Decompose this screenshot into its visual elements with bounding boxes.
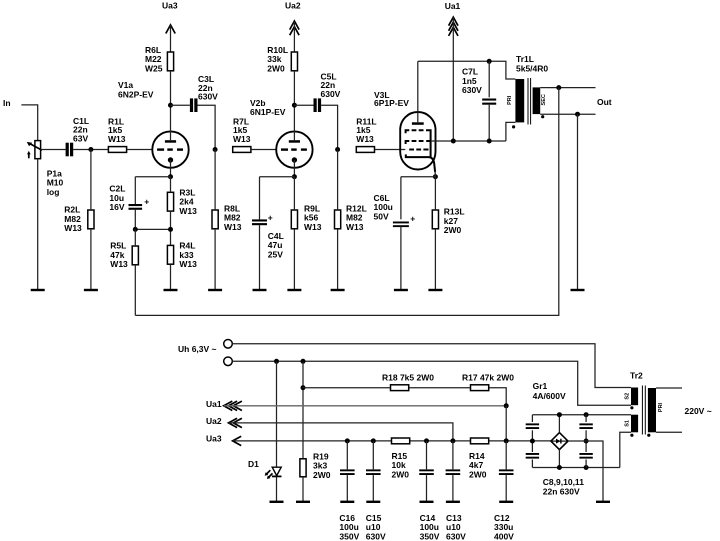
resistor R8L <box>212 204 242 232</box>
node plate V1a <box>168 103 173 108</box>
wire secondary bottom to ground <box>577 114 579 290</box>
wire V3L plate to Tr1L primary <box>418 61 516 79</box>
node junction C15 <box>371 438 376 443</box>
node junction DC+ left <box>530 439 535 444</box>
ground <box>420 501 434 503</box>
svg-text:PRI: PRI <box>658 402 664 412</box>
svg-text:W13: W13 <box>356 134 374 144</box>
node junction D1 tap <box>274 359 279 364</box>
svg-text:SEC: SEC <box>541 94 547 105</box>
resistor R15 <box>392 438 410 479</box>
wire C3L to V2b grid node <box>198 105 216 149</box>
wire plate node to C5L <box>294 104 313 106</box>
svg-text:2W0: 2W0 <box>267 63 285 73</box>
wire P1a wiper to C1L <box>41 149 66 151</box>
node In <box>3 98 11 108</box>
transformer Tr2 core <box>642 386 645 435</box>
node junction secondary top <box>556 85 561 90</box>
node cathode V1a <box>168 174 173 179</box>
svg-text:W13: W13 <box>304 222 322 232</box>
svg-text:Out: Out <box>597 97 612 107</box>
svg-text:400V: 400V <box>494 532 514 541</box>
node Ua1 (supply arrow) <box>445 1 461 141</box>
node junction C7L top <box>487 59 492 64</box>
ground <box>31 289 45 291</box>
node Uh heater terminals <box>178 340 232 366</box>
wire Tr2 primary leads <box>656 388 682 432</box>
svg-text:6N1P-EV: 6N1P-EV <box>250 107 286 117</box>
wire R1L to V1a grid <box>127 149 152 151</box>
node junction snubber bottom right <box>584 465 589 470</box>
ground <box>164 289 178 291</box>
svg-text:Ua2: Ua2 <box>285 1 301 11</box>
svg-text:350V: 350V <box>339 532 359 541</box>
capacitor C3L <box>190 74 218 112</box>
node Ua2 (arrow) <box>206 416 242 428</box>
ground <box>571 289 585 291</box>
svg-text:6P1P-EV: 6P1P-EV <box>374 98 409 108</box>
svg-text:W13: W13 <box>179 206 197 216</box>
wire R3L leads <box>170 177 172 246</box>
svg-text:W13: W13 <box>179 259 197 269</box>
wire C1L to R1L <box>73 149 108 151</box>
node junction bridge bottom <box>557 465 562 470</box>
transformer Tr2 winding S1 <box>624 415 638 437</box>
wire P1a to ground <box>37 159 39 290</box>
resistor R18 <box>382 373 434 391</box>
svg-text:W13: W13 <box>110 259 128 269</box>
capacitor C6L <box>374 193 416 227</box>
wire R11L to V3L grid <box>375 149 406 151</box>
node cathode V2b <box>292 174 297 179</box>
svg-text:2W0: 2W0 <box>469 469 487 479</box>
svg-text:S1: S1 <box>624 420 630 427</box>
ground <box>340 501 354 503</box>
node Ua3 (supply arrow) <box>162 1 178 53</box>
wire bridge AC top <box>532 415 631 433</box>
svg-text:16V: 16V <box>109 202 124 212</box>
ground <box>208 289 222 291</box>
svg-text:2W0: 2W0 <box>313 470 331 480</box>
wire R9L leads <box>293 177 295 290</box>
wire C6L to ground <box>400 226 402 290</box>
node junction Ua1/R17 <box>504 403 509 408</box>
resistor R2L <box>64 205 94 233</box>
ground <box>428 289 442 291</box>
transformer Tr1L primary <box>507 54 548 128</box>
svg-text:W13: W13 <box>224 222 242 232</box>
node junction C2L/R5L <box>133 227 138 232</box>
node cathode V3L <box>433 174 438 179</box>
resistor R5L <box>110 241 138 269</box>
svg-text:In: In <box>3 98 11 108</box>
wire R6L to plate node <box>170 71 172 105</box>
capacitor C16 <box>339 441 359 541</box>
resistor R17 <box>462 373 514 391</box>
transformer Tr2 primary <box>630 371 664 437</box>
node junction C3L/R8L/R7L <box>213 147 218 152</box>
wire R12L leads <box>337 150 339 291</box>
wire R5L leads <box>134 229 136 315</box>
wire bridge DC-minus to ground <box>568 441 603 502</box>
node junction Ua1 stem <box>451 139 456 144</box>
node Ua3 (arrow) <box>206 433 241 445</box>
capacitor C2L <box>109 184 149 212</box>
resistor R10L <box>267 45 297 73</box>
wire C5L to V3L grid node <box>321 105 338 149</box>
ground <box>331 289 345 291</box>
resistor R6L <box>145 45 174 73</box>
svg-text:22n 630V: 22n 630V <box>543 487 580 497</box>
resistor R9L <box>291 204 321 232</box>
wire Ua3 filter rail <box>233 440 551 442</box>
svg-text:25V: 25V <box>268 249 283 259</box>
wire Ua1 line <box>224 405 506 407</box>
resistor R7L <box>233 117 251 153</box>
svg-text:Ua3: Ua3 <box>162 1 178 11</box>
node junction C5L/R12L/R11L <box>335 147 340 152</box>
svg-text:5k5/4R0: 5k5/4R0 <box>516 63 548 73</box>
resistor R19 <box>300 361 331 502</box>
wire Tr1L secondary top to Out <box>540 87 595 89</box>
wire plate node to C3L <box>171 104 190 106</box>
wire R8L leads <box>214 150 216 291</box>
svg-text:D1: D1 <box>248 459 259 469</box>
capacitor C13 <box>446 441 467 541</box>
transformer Tr2 winding S2 <box>624 388 638 410</box>
resistor R3L <box>167 187 197 215</box>
wire cathode V1a to C2L <box>135 177 170 204</box>
svg-text:4A/600V: 4A/600V <box>533 391 566 401</box>
wire R4L to ground <box>170 264 172 290</box>
resistor R4L <box>167 241 197 269</box>
svg-text:+: + <box>268 213 273 223</box>
node Ua1 (arrow) <box>206 399 242 411</box>
transformer Tr1L core <box>528 78 531 125</box>
resistor R14 <box>469 438 489 479</box>
svg-text:630V: 630V <box>462 85 482 95</box>
ground <box>287 289 301 291</box>
capacitor C12 <box>494 441 514 541</box>
svg-text:630V: 630V <box>198 92 218 102</box>
svg-text:Ua3: Ua3 <box>206 433 222 443</box>
ground <box>366 501 380 503</box>
svg-text:2W0: 2W0 <box>444 225 462 235</box>
svg-text:S2: S2 <box>624 393 630 400</box>
ground <box>446 501 460 503</box>
node Ua2 (supply arrow) <box>285 1 301 53</box>
wire heater top line <box>232 344 631 388</box>
resistor R1L <box>108 117 127 153</box>
wire raw DC drop <box>505 406 507 441</box>
wire cathode V2b to C4L <box>260 177 295 220</box>
node Out <box>597 97 612 107</box>
node junction R18 tap <box>301 385 306 390</box>
wire Tr1L primary bottom <box>506 122 516 141</box>
capacitor C9 (snubber) <box>526 453 539 459</box>
node junction C12 <box>504 438 509 443</box>
diode D1 (LED) <box>248 361 282 502</box>
svg-text:Tr2: Tr2 <box>630 371 643 381</box>
svg-text:6N2P-EV: 6N2P-EV <box>118 89 154 99</box>
resistor R12L <box>335 204 367 232</box>
wire C4L to ground <box>259 225 261 290</box>
rectifier Gr1 <box>533 381 568 449</box>
node junction C16 <box>345 438 350 443</box>
wire V3L cathode leads <box>401 171 436 219</box>
node junction bridge top <box>557 412 562 417</box>
label C8,9,10,11 values <box>543 477 584 497</box>
svg-text:50V: 50V <box>374 211 389 221</box>
ground <box>84 289 98 291</box>
wire R7L to V2b grid <box>251 149 276 151</box>
ground <box>296 501 310 503</box>
capacitor C5L <box>314 71 341 112</box>
capacitor C7L <box>462 61 496 141</box>
wire snubber column right <box>585 415 587 468</box>
svg-text:PRI: PRI <box>507 95 513 105</box>
node junction DC- right <box>584 439 589 444</box>
wire Tr1L secondary bottom to Out <box>540 113 595 115</box>
wire R13L leads <box>434 177 436 290</box>
wire snubber column left <box>531 415 533 468</box>
svg-text:R17 47k 2W0: R17 47k 2W0 <box>462 373 514 383</box>
transformer Tr1L secondary <box>533 87 547 118</box>
svg-text:630V: 630V <box>366 532 386 541</box>
ground <box>253 289 267 291</box>
node junction secondary bottom <box>575 112 580 117</box>
wire S1 bottom lead <box>620 432 631 467</box>
node junction C13 <box>450 438 455 443</box>
svg-text:log: log <box>47 187 60 197</box>
wire heater bottom line <box>232 361 631 405</box>
svg-text:630V: 630V <box>446 532 466 541</box>
svg-text:630V: 630V <box>321 89 341 99</box>
node junction R19 tap <box>301 359 306 364</box>
wire cathode node bus <box>135 228 170 230</box>
node junction C7L bottom <box>487 139 492 144</box>
wire Ua2 line <box>229 423 453 441</box>
potentiometer P1a <box>27 141 64 197</box>
wire In to P1a <box>21 105 37 141</box>
wire R2L leads <box>90 150 92 291</box>
node junction C14 <box>424 438 429 443</box>
svg-text:W13: W13 <box>64 223 82 233</box>
svg-text:Gr1: Gr1 <box>533 381 548 391</box>
capacitor C4L <box>252 213 284 260</box>
capacitor C11 (snubber) <box>579 453 592 459</box>
wire V3L screen to supply node <box>431 140 506 142</box>
svg-text:350V: 350V <box>420 532 440 541</box>
svg-text:220V ~: 220V ~ <box>685 406 712 416</box>
node junction R3L/R4L <box>168 227 173 232</box>
svg-text:+: + <box>410 214 415 224</box>
triode V1a <box>118 80 189 177</box>
wire bridge AC bottom <box>532 450 619 468</box>
svg-text:R18 7k5 2W0: R18 7k5 2W0 <box>382 373 434 383</box>
ground <box>394 289 408 291</box>
wire R10L to plate node <box>293 71 295 105</box>
svg-text:Uh 6,3V ~: Uh 6,3V ~ <box>178 344 217 354</box>
svg-text:Ua1: Ua1 <box>206 399 222 409</box>
capacitor C10 (snubber) <box>579 423 592 429</box>
ground <box>596 501 610 503</box>
ground <box>499 501 513 503</box>
triode V2b <box>250 98 313 177</box>
svg-text:W13: W13 <box>346 222 364 232</box>
wire C2L to node <box>134 210 136 230</box>
wire feedback from secondary <box>135 88 559 316</box>
svg-text:C8,9,10,11: C8,9,10,11 <box>543 477 584 487</box>
svg-text:Ua2: Ua2 <box>206 416 222 426</box>
svg-text:2W0: 2W0 <box>392 469 410 479</box>
node plate V2b <box>292 103 297 108</box>
wire bias divider line <box>303 388 506 406</box>
svg-text:Ua1: Ua1 <box>445 1 461 11</box>
node junction snubber top right <box>584 412 589 417</box>
node 220V terminal <box>685 406 712 416</box>
capacitor C8 (snubber) <box>526 423 539 429</box>
pentode V3L <box>374 61 436 172</box>
node junction C1L/R2L <box>88 147 93 152</box>
svg-text:+: + <box>144 197 149 207</box>
svg-text:63V: 63V <box>73 133 88 143</box>
resistor R11L <box>356 117 376 153</box>
resistor R13L <box>432 207 464 235</box>
svg-text:W13: W13 <box>233 134 251 144</box>
capacitor C15 <box>366 441 386 541</box>
svg-text:W25: W25 <box>145 63 163 73</box>
capacitor C14 <box>419 441 440 541</box>
capacitor C1L <box>66 116 89 156</box>
ground <box>270 501 284 503</box>
svg-text:W13: W13 <box>108 134 126 144</box>
